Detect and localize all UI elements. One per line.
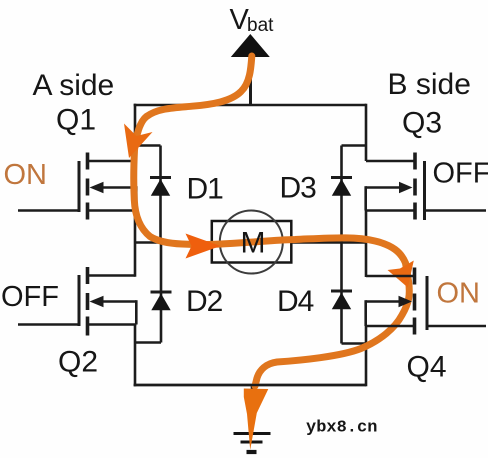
diode D3 (freewheel, across Q3) (331, 146, 367, 243)
D1 cathode bar and anode triangle (150, 176, 171, 179)
Q1 gate wire (18, 209, 79, 212)
Q4 body lead and arrow (366, 300, 401, 303)
Q3 channel segments (413, 153, 417, 170)
flow arrowhead 3 (into Q4) (388, 261, 414, 288)
left trunk upper wire (134, 104, 137, 161)
diode D1 (freewheel, across Q1) (134, 146, 171, 243)
bottom rail wire (134, 384, 366, 387)
motor M box (212, 221, 291, 263)
svg-text:D2: D2 (186, 285, 223, 318)
Q2 channel segments (86, 267, 90, 284)
svg-text:A side: A side (33, 69, 115, 102)
motor wire left (135, 241, 212, 244)
Q1 body-source tie (135, 186, 138, 210)
flow arrowhead 4 (into ground) (244, 389, 268, 451)
D2 cathode bar and anode triangle (151, 291, 172, 294)
Q2 gate wire (18, 323, 79, 326)
D4 cathode bar and anode triangle (331, 290, 352, 293)
D1 jog wire to left trunk (134, 144, 161, 147)
Q2 gate bar (78, 275, 81, 326)
right trunk middle wire (Q3 source to Q4 drain) (365, 210, 368, 278)
motor wire right (291, 241, 366, 244)
Q4 drain lead (366, 275, 414, 278)
diode D4 (freewheel, across Q4) (331, 243, 366, 344)
D3 branch wire (340, 146, 343, 243)
svg-text:ON: ON (4, 159, 48, 191)
Q2 body lead and arrow (101, 300, 136, 303)
diode D2 (freewheel, across Q2) (135, 243, 172, 343)
Q2 source lead (88, 323, 136, 326)
D1 branch wire (159, 146, 162, 243)
Q1 gate bar (78, 161, 81, 212)
Q3 gate bar (423, 161, 426, 220)
svg-text:D1: D1 (187, 173, 224, 206)
Q4 gate wire (427, 325, 486, 328)
transistor Q4 (NMOS, low side B) (366, 268, 486, 335)
svg-text:OFF: OFF (1, 281, 59, 313)
D3 cathode bar and anode triangle (331, 176, 352, 179)
flow arrowhead 1 (into Q1) (124, 124, 153, 159)
flow arrowhead 2 (into motor) (186, 234, 221, 259)
Q1 body lead and arrow (101, 186, 136, 189)
Q3 source lead (366, 209, 414, 212)
left trunk middle wire (Q1 source to Q2 drain) (134, 210, 137, 277)
motor M circle (220, 211, 283, 274)
svg-text:ybx8.cn: ybx8.cn (306, 419, 377, 438)
svg-text:OFF: OFF (433, 158, 488, 190)
svg-text:Q1: Q1 (56, 104, 96, 137)
Vbat stem wire (249, 56, 252, 105)
left trunk lower wire (Q2 source to bottom rail) (134, 325, 137, 387)
right trunk lower wire (Q4 source to bottom rail) (365, 326, 368, 386)
D2 branch wire (160, 243, 163, 343)
svg-text:ON: ON (437, 278, 481, 310)
redraw bottom rail over flow (134, 384, 366, 387)
Q1 source lead (88, 209, 136, 212)
svg-text:D3: D3 (280, 172, 317, 205)
D2 jog wire to left trunk (135, 341, 161, 344)
Q3 drain lead (366, 160, 414, 163)
top rail wire (134, 104, 366, 107)
svg-text:Q2: Q2 (58, 346, 98, 379)
label Vbat (230, 4, 275, 36)
D3 jog wire to right trunk (342, 144, 368, 147)
transistor Q1 (NMOS, high side A) (18, 153, 136, 220)
svg-text:M: M (241, 227, 266, 260)
Q4 gate bar (426, 276, 429, 330)
svg-text:D4: D4 (277, 285, 314, 318)
svg-text:bat: bat (247, 15, 274, 36)
D4 branch wire (340, 243, 343, 344)
right trunk upper wire (365, 104, 368, 161)
transistor Q2 (NMOS, low side A) (18, 267, 136, 336)
Q1 channel segments (86, 153, 90, 170)
Q2 body-source tie (135, 300, 138, 324)
Q3 body-source tie (364, 186, 367, 210)
Q3 body lead and arrow (366, 186, 401, 189)
D4 jog wire to right trunk (342, 342, 367, 345)
svg-text:Q4: Q4 (407, 351, 447, 384)
Q3 gate wire (425, 209, 487, 212)
ground symbol (234, 434, 271, 453)
svg-text:B side: B side (388, 68, 471, 101)
svg-text:Q3: Q3 (402, 107, 442, 140)
Q2 drain lead (88, 274, 135, 277)
Q4 channel segments (413, 268, 417, 285)
current flow path (orange) (134, 56, 410, 386)
ground stem wire (251, 385, 254, 433)
Q1 drain lead (88, 160, 135, 163)
battery arrow (Vbat) (231, 34, 270, 57)
Q4 body-source tie (364, 300, 367, 326)
Q4 source lead (366, 325, 414, 328)
transistor Q3 (NMOS, high side B) (366, 153, 486, 221)
